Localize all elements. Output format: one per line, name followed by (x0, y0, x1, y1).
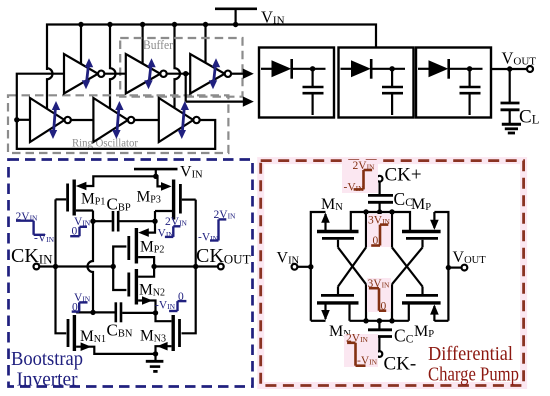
inverter U6 (ring3) (159, 98, 200, 142)
power stub to U2 (142, 25, 144, 64)
svg-text:3VIN: 3VIN (368, 278, 391, 290)
svg-text:3VIN: 3VIN (368, 214, 391, 226)
node A-CBN junction (90, 310, 95, 315)
wire CKOUT to MP3 gate (195, 200, 197, 267)
terminal CKIN (34, 264, 40, 270)
inverter U2 (buffer2) (126, 54, 167, 94)
waveform annotation 2VIN/-VIN (at CK-) (344, 334, 378, 367)
capacitor CBP (93, 211, 155, 232)
svg-text:Charge Pump: Charge Pump (428, 365, 519, 386)
node VIN split (153, 174, 158, 179)
wire VOUT source segment (bottom) (434, 320, 448, 322)
svg-text:CK+: CK+ (385, 165, 422, 186)
svg-text:0: 0 (72, 226, 78, 238)
wire CKIN (39, 265, 113, 267)
svg-text:-VIN: -VIN (198, 231, 219, 243)
wire MP2 drain (138, 257, 154, 266)
wire VIN terminal (297, 266, 310, 268)
wire CKOUT to MN3 gate (182, 267, 196, 334)
transistor MP1 (56, 180, 94, 216)
junction dots on rail (78, 22, 238, 27)
wire CK+ rail (351, 212, 410, 230)
svg-text:-VIN: -VIN (34, 233, 55, 245)
node ring input junction (14, 117, 19, 122)
VIN power rail (47, 25, 376, 71)
svg-text:VIN: VIN (158, 228, 175, 240)
inverter U5 (ring2) (93, 98, 134, 142)
terminal VOUT (527, 66, 533, 72)
VIN supply symbol (top) (215, 9, 257, 25)
node VOUT (446, 265, 451, 270)
node VOUT (507, 66, 512, 71)
pink halo for red dashed box (261, 161, 524, 386)
terminal VOUT (pump) (462, 265, 468, 271)
transistor MP (bottom right) (402, 295, 441, 321)
svg-text:-VIN: -VIN (357, 355, 378, 367)
gray dashed box Buffer (120, 38, 242, 97)
waveform annotation 2VIN/-VIN (at CK+) (342, 160, 378, 193)
wire MN3 drain (153, 310, 172, 321)
node CK+ cap (377, 209, 382, 214)
node CK- left gate tap (363, 318, 368, 323)
svg-text:CK-: CK- (384, 354, 417, 375)
blue dashed box Bootstrap Inverter (9, 160, 253, 387)
transistor MN2 (129, 269, 137, 305)
svg-text:2VIN: 2VIN (353, 160, 376, 172)
node CK+ right gate tap (389, 209, 394, 214)
wire VOUT terminal (448, 267, 461, 269)
charge pump stage 1 (259, 48, 334, 118)
svg-text:Buffer: Buffer (143, 37, 174, 52)
transistor MN3 (173, 315, 179, 351)
wire CKOUT (154, 265, 218, 267)
svg-text:2VIN: 2VIN (165, 216, 188, 228)
wire CKIN to MN1 gate (56, 267, 67, 334)
wire MP3 drain drop (154, 211, 156, 221)
node CKOUT gates tap (193, 264, 198, 269)
transistor MN (bottom left) (317, 295, 359, 320)
clock arrow phase2 into stage 1 (186, 74, 254, 107)
ground (CL) (502, 124, 521, 133)
wire VIN to MP1 source (arrow left) (76, 176, 156, 190)
power drop to U5 with hop (110, 25, 116, 110)
svg-text:0: 0 (373, 235, 379, 247)
charge pump stage 2 (339, 48, 414, 118)
node CK- cap (377, 318, 382, 323)
transistor MP (top right) (402, 212, 441, 247)
power drop to U6 with hop (175, 25, 181, 109)
waveform annotation 2VIN/VIN (right of MP2) (158, 216, 188, 239)
waveform annotation 2VIN/-VIN (left of CKIN) (16, 211, 55, 245)
node clock phase tap (183, 71, 188, 76)
waveform annotation -VIN/0 (right of MN2) (155, 291, 186, 312)
terminal VIN (pump) (292, 264, 298, 270)
capacitor CL (501, 69, 520, 123)
wire U2 out to U3 in (167, 73, 191, 75)
wire MN2 drain (138, 267, 154, 277)
charge pump stage 3 (416, 48, 491, 118)
cross-coupling wires (right X) (392, 212, 423, 321)
clock arrow phase1 into stage 1 (231, 69, 254, 79)
waveform annotation VIN/0 (below MP1) (70, 216, 91, 238)
wire node A vertical (MP1 drain to MN1 drain, hop over CK line) (88, 211, 93, 313)
node A-CBP junction (90, 219, 95, 224)
wire VIN source segment (bottom) (311, 320, 326, 322)
node VIN (308, 264, 313, 269)
svg-text:0: 0 (178, 291, 184, 303)
node CKIN gate tap MP2/MN2 (111, 264, 116, 269)
terminal CK- (377, 351, 383, 357)
inverter U4 (ring1) (30, 98, 71, 142)
ground (bootstrap) (146, 351, 164, 371)
node CK+ left gate tap (363, 209, 368, 214)
node CKOUT drains (151, 264, 156, 269)
svg-text:-VIN: -VIN (155, 300, 176, 312)
svg-text:0: 0 (381, 301, 387, 313)
red dashed box Differential Charge Pump (261, 161, 524, 386)
power stub to U1 (80, 25, 82, 64)
waveform annotation 3VIN/0 (upper middle) (367, 214, 391, 247)
wire MN2 source (arrow right) (138, 296, 155, 313)
wire MN1 source (arrow right) (76, 342, 155, 354)
transistor MP2 (129, 228, 137, 264)
wire MN3 source (arrow left) (156, 342, 172, 354)
wire U5 out to U6 in (134, 119, 159, 121)
wire CK- rail (350, 320, 409, 322)
node CKIN gate tap MP1/MN1 (53, 264, 58, 269)
power drop to U4 with hop (47, 68, 53, 109)
wire CKIN to MP2 gate (113, 247, 126, 267)
transistor MN1 (68, 312, 93, 351)
capacitor CC (bottom) (368, 321, 392, 351)
terminal CKOUT (218, 264, 224, 270)
transistor MN (top left) (317, 213, 359, 248)
wire U4 out to U5 in (71, 119, 94, 121)
VIN supply symbol (bootstrap) (134, 169, 178, 176)
svg-text:-VIN: -VIN (344, 182, 365, 194)
gray dashed box Ring Oscillator (8, 95, 228, 153)
wire MP2 source (arrow left) (138, 221, 155, 237)
cross-coupling wires (left X) (338, 212, 366, 321)
inverter U1 (buffer1) (64, 54, 104, 94)
waveform annotation 3VIN/0 (lower middle) (367, 278, 391, 312)
svg-text:2VIN: 2VIN (16, 211, 39, 223)
svg-text:Bootstrap: Bootstrap (11, 349, 83, 370)
svg-text:2VIN: 2VIN (346, 333, 369, 345)
svg-text:Differential: Differential (428, 344, 514, 365)
wire CKIN to MP1 gate (54, 199, 56, 266)
svg-text:0: 0 (72, 301, 78, 313)
transistor MP3 (155, 180, 196, 220)
wire VIN to MP3 source (arrow right) (156, 176, 172, 190)
svg-text:Inverter: Inverter (17, 370, 78, 391)
capacitor CC (top) (368, 182, 393, 212)
wire VOUT (491, 68, 527, 70)
feedback loop wire (17, 74, 215, 149)
wire VIN source segment (top) (311, 212, 326, 321)
node CK- right gate tap (389, 318, 394, 323)
waveform annotation 2VIN/-VIN (above CKOUT) (198, 209, 236, 243)
inverter U3 (buffer3) (190, 54, 231, 94)
terminal CK+ (377, 176, 383, 182)
svg-text:Ring Oscillator: Ring Oscillator (72, 136, 138, 150)
waveform annotation VIN/0 (above MN1) (72, 292, 91, 313)
wire CKIN to MN2 gate (113, 267, 126, 291)
power stub to U3 (204, 25, 206, 63)
node CBP-MP3-MP2 junction (152, 219, 157, 224)
wire U1 out to U2 in (104, 73, 125, 75)
wire to U4 input (17, 119, 30, 121)
capacitor CBN (93, 302, 156, 322)
wire VOUT source segment (top) (434, 212, 448, 321)
svg-text:2VIN: 2VIN (214, 209, 237, 221)
